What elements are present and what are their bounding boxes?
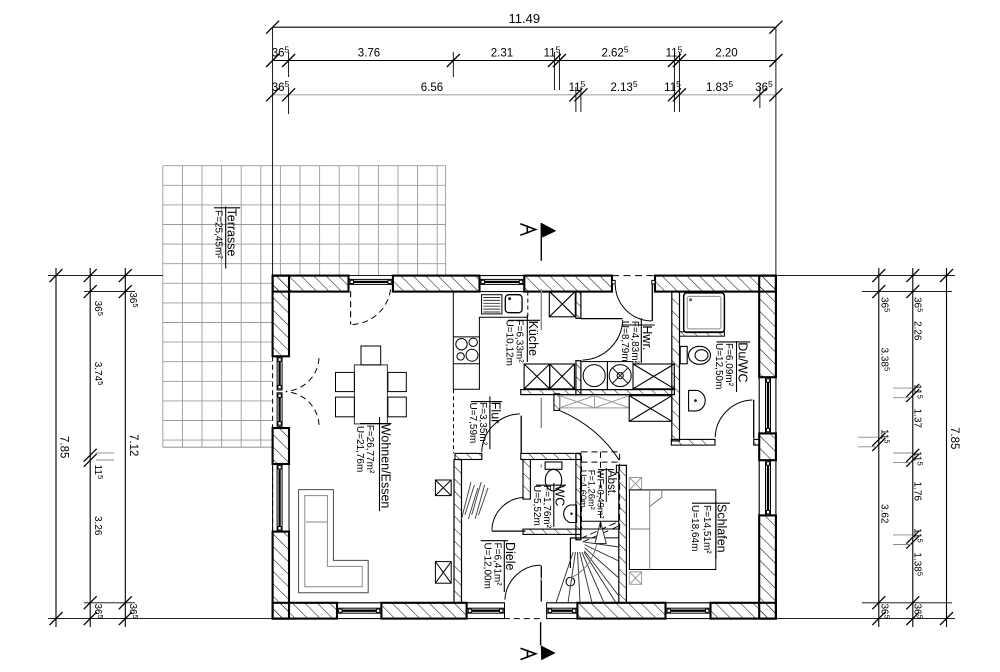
window right DuWC xyxy=(759,377,776,433)
DuWC shower xyxy=(684,293,725,333)
dimension left chain line 2 xyxy=(84,268,114,627)
dimension left chain 2 texts xyxy=(92,301,105,619)
room label Schlafen xyxy=(689,502,730,559)
wardrobe X large xyxy=(629,396,672,422)
interior face line across window openings xyxy=(289,292,759,603)
window left french door leaves xyxy=(277,357,282,427)
svg-text:U=10,12m: U=10,12m xyxy=(504,320,515,366)
garderobe hooks xyxy=(462,482,489,519)
post X Schlafen top xyxy=(629,478,641,490)
kitchen counter outline xyxy=(453,292,528,390)
wall bottom exterior xyxy=(273,603,776,619)
dimension left chain line 3 xyxy=(119,268,132,627)
door Schlafen swing xyxy=(560,411,619,460)
svg-text:3.76: 3.76 xyxy=(358,48,380,60)
dimension right chain line A xyxy=(858,268,885,627)
staircase winder treads xyxy=(556,542,619,603)
svg-text:2.20: 2.20 xyxy=(715,48,737,60)
hall cabinets gray X xyxy=(560,396,630,408)
sofa L-shaped xyxy=(299,490,369,593)
svg-text:Wohnen/Essen: Wohnen/Essen xyxy=(378,424,392,509)
svg-text:11.49: 11.49 xyxy=(509,11,541,26)
wall right exterior xyxy=(759,276,776,619)
dimension right chain B texts xyxy=(912,297,925,619)
svg-text:Diele: Diele xyxy=(503,542,517,571)
svg-text:U=7,59m: U=7,59m xyxy=(467,403,478,444)
door WC xyxy=(492,497,526,531)
partition WC/stair xyxy=(576,453,581,539)
post X Schlafen bottom xyxy=(629,572,641,585)
partition Schlafen top xyxy=(671,439,715,445)
window left W5 xyxy=(273,464,289,532)
svg-text:F=14,51m²: F=14,51m² xyxy=(701,505,712,554)
window bottom W0 xyxy=(337,603,381,619)
door french left dashed swing lower xyxy=(286,392,319,425)
room label Flur xyxy=(467,396,503,449)
svg-text:U=18,64m: U=18,64m xyxy=(689,505,700,551)
Hwr washer xyxy=(581,362,607,390)
terrace tile grid xyxy=(163,166,446,448)
partition WC left xyxy=(523,460,530,500)
window kitchen top xyxy=(480,276,525,292)
staircase outline xyxy=(566,472,581,586)
svg-text:Abst.: Abst. xyxy=(605,470,617,496)
window right Schlafen xyxy=(759,460,776,515)
partition DuWC door stub xyxy=(754,439,760,445)
partition WC top west stub xyxy=(455,453,482,459)
dimension left extension lines xyxy=(48,276,273,619)
room label DuWC xyxy=(713,341,750,392)
room label WC xyxy=(531,483,567,529)
Hwr dryer xyxy=(607,362,633,390)
door Hwr exterior top xyxy=(612,276,655,321)
kitchen counter edge dashed to Flur xyxy=(453,389,455,453)
door french left dashed swing upper xyxy=(286,358,319,391)
terrace door top symbol xyxy=(349,279,393,284)
dining chairs xyxy=(336,346,407,417)
door entrance xyxy=(504,565,544,619)
door terrace top dashed swing xyxy=(351,286,391,324)
svg-text:U=5,52m: U=5,52m xyxy=(531,485,542,526)
shower stub wall xyxy=(680,332,725,336)
door Hwr interior xyxy=(581,319,623,361)
dining table xyxy=(354,365,387,424)
terrace label Terrasse xyxy=(213,207,241,269)
dimension top chain 3 extension stubs xyxy=(289,87,760,114)
dimension right line 7.85 xyxy=(940,268,960,627)
svg-text:6.56: 6.56 xyxy=(421,82,443,94)
bed xyxy=(629,490,715,570)
dimension left chain 3 texts xyxy=(127,292,140,619)
svg-text:U=21,76m: U=21,76m xyxy=(354,426,365,472)
wall top exterior xyxy=(273,276,776,292)
room label Abst xyxy=(578,468,617,519)
dimension right chain line B xyxy=(893,268,919,627)
window bottom W3 xyxy=(666,603,711,619)
svg-text:U=4,60m: U=4,60m xyxy=(578,470,588,508)
exterior face line across window openings xyxy=(337,276,776,619)
svg-text:7.85: 7.85 xyxy=(57,436,69,458)
svg-text:Schlafen: Schlafen xyxy=(715,504,729,553)
svg-text:Flur: Flur xyxy=(489,402,503,424)
dashed exterior face left wall at doors xyxy=(272,356,274,531)
kitchen sink basin xyxy=(505,295,522,313)
section line A-A top marker xyxy=(520,223,556,261)
dimension top main extension lines xyxy=(273,27,776,275)
post X Wohnen bottom xyxy=(435,562,451,584)
dimension top chain line 2 xyxy=(266,54,782,67)
staircase straight treads xyxy=(581,521,619,538)
wall stub A xyxy=(554,394,560,411)
room label Kueche xyxy=(504,315,540,366)
window bottom W2 xyxy=(547,603,578,619)
svg-text:3.62: 3.62 xyxy=(879,504,890,524)
window bottom W1 xyxy=(467,603,505,619)
staircase cut line xyxy=(581,522,619,543)
svg-text:1.76: 1.76 xyxy=(912,482,923,502)
partition Wohnen/Diele xyxy=(454,460,462,603)
svg-text:2.31: 2.31 xyxy=(491,48,513,60)
partition Kueche/Hwr upper xyxy=(576,292,581,319)
dimension top overall line 11.49 xyxy=(266,11,782,34)
dimension left line 7.85 xyxy=(50,268,70,627)
partition Kueche/Hwr lower xyxy=(576,361,581,395)
svg-text:Hwr.: Hwr. xyxy=(640,325,654,350)
svg-text:Küche: Küche xyxy=(526,321,540,356)
section line trace in plan xyxy=(540,289,542,581)
room label Wohnen/Essen xyxy=(354,417,392,511)
dimension top chain 2 texts xyxy=(272,45,738,60)
svg-text:U=8,79m: U=8,79m xyxy=(619,321,630,362)
partition WC bottom xyxy=(523,529,581,534)
dimension top chain line 3 gray xyxy=(266,88,782,101)
staircase walking line and arrow xyxy=(570,522,606,578)
partition stair/Schlafen xyxy=(619,465,627,603)
wall left exterior xyxy=(273,276,289,619)
svg-text:WC: WC xyxy=(553,486,567,507)
partition WC top xyxy=(521,453,581,459)
kitchen sink drainboard xyxy=(482,295,502,314)
WC washbasin xyxy=(564,505,577,523)
kitchen cooktop 4 burners xyxy=(453,337,479,364)
svg-text:U=12,00m: U=12,00m xyxy=(482,543,493,589)
svg-text:1.37: 1.37 xyxy=(912,409,923,429)
kitchen tall unit X top xyxy=(549,291,575,317)
svg-text:F=25,45m²: F=25,45m² xyxy=(213,210,224,259)
door DuWC xyxy=(715,400,754,439)
partition kitchen south xyxy=(521,390,675,395)
DuWC washbasin xyxy=(689,390,706,411)
svg-text:3.26: 3.26 xyxy=(92,516,103,536)
section line A-A bottom marker xyxy=(521,622,556,660)
svg-text:7.85: 7.85 xyxy=(948,427,960,449)
Hwr cupboard X xyxy=(633,364,674,389)
svg-text:U=12,50m: U=12,50m xyxy=(713,343,724,389)
post X Wohnen top xyxy=(435,480,451,496)
WC toilet xyxy=(545,462,562,491)
stair wall hook xyxy=(616,465,619,472)
svg-text:Terrasse: Terrasse xyxy=(225,209,239,257)
DuWC toilet xyxy=(680,346,710,364)
room label Diele xyxy=(481,541,517,593)
dimension right extension lines xyxy=(776,276,955,619)
dimension right chain A texts xyxy=(879,297,892,619)
dimension top chain 2 extension stubs xyxy=(289,52,680,90)
Abst dashed outline xyxy=(582,452,620,529)
partition Hwr/DuWC xyxy=(672,292,680,441)
svg-text:Du/WC: Du/WC xyxy=(735,342,749,382)
svg-text:7.12: 7.12 xyxy=(127,434,139,456)
door Flur/Diele xyxy=(482,414,522,454)
kitchen tall units X bottom xyxy=(524,364,574,389)
dimension top chain 3 texts xyxy=(272,79,773,94)
room label Hwr xyxy=(619,318,655,364)
svg-text:2.26: 2.26 xyxy=(912,321,923,341)
